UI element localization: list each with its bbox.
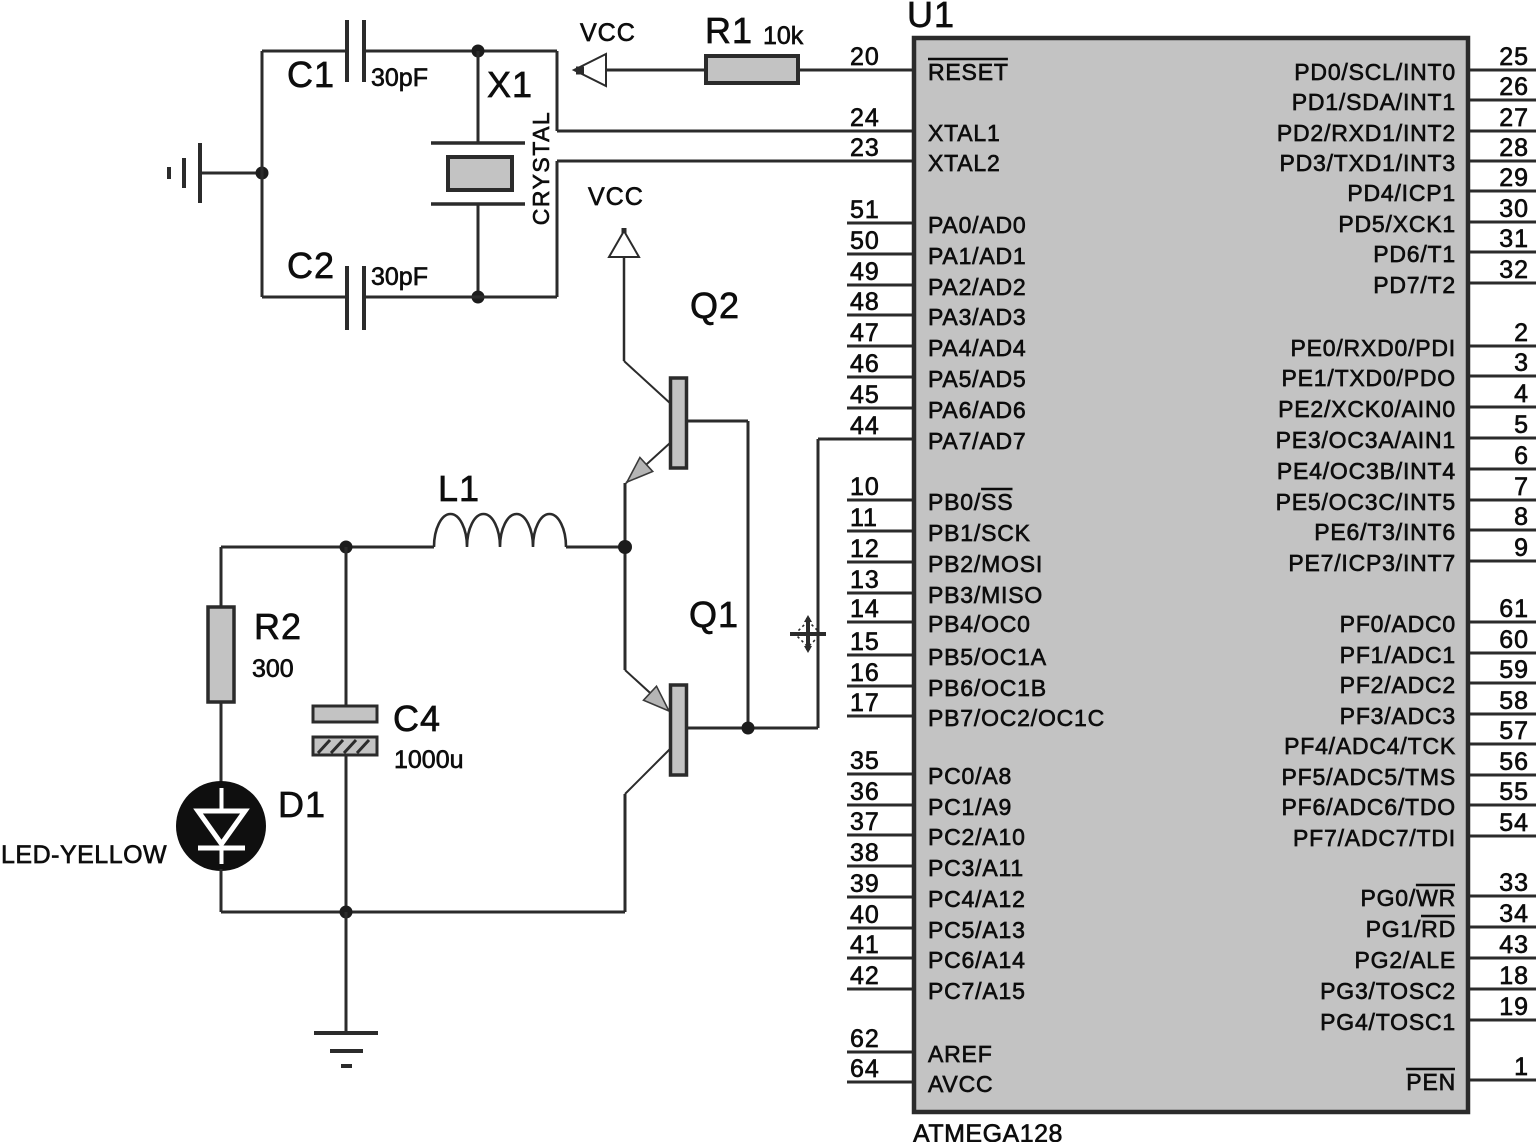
svg-text:D1: D1: [278, 784, 326, 825]
svg-text:Q1: Q1: [689, 594, 739, 635]
svg-text:VCC: VCC: [588, 183, 644, 211]
svg-text:PF1/ADC1: PF1/ADC1: [1340, 642, 1456, 668]
svg-text:42: 42: [850, 962, 880, 990]
transistor Q1: [625, 670, 687, 794]
pin 49 PA2/AD2 (left): [847, 258, 1027, 300]
svg-text:8: 8: [1514, 503, 1529, 531]
svg-text:10k: 10k: [763, 22, 804, 50]
svg-text:29: 29: [1499, 164, 1529, 192]
svg-text:U1: U1: [907, 0, 955, 35]
ground (left, crystal): [169, 143, 200, 203]
svg-text:PB6/OC1B: PB6/OC1B: [928, 675, 1047, 701]
svg-text:55: 55: [1499, 778, 1529, 806]
svg-text:PA1/AD1: PA1/AD1: [928, 243, 1027, 269]
pin 2 PE0/RXD0/PDI (right): [1290, 319, 1536, 361]
svg-text:PC7/A15: PC7/A15: [928, 978, 1026, 1004]
pin 35 PC0/A8 (left): [847, 747, 1012, 789]
svg-text:44: 44: [850, 412, 880, 440]
wire Q2 base down to node: [747, 421, 750, 728]
svg-text:48: 48: [850, 288, 880, 316]
pin 12 PB2/MOSI (left): [847, 535, 1043, 577]
svg-text:23: 23: [850, 134, 880, 162]
svg-text:25: 25: [1499, 43, 1529, 71]
wire VCC to Q2 collector: [623, 257, 626, 361]
svg-text:59: 59: [1499, 656, 1529, 684]
wire ground to node: [200, 172, 262, 175]
pin 29 PD4/ICP1 (right): [1347, 164, 1536, 206]
svg-text:XTAL2: XTAL2: [928, 150, 1001, 176]
pin 14 PB4/OC0 (left): [847, 595, 1031, 637]
ground (bottom): [314, 1033, 378, 1066]
pin 3 PE1/TXD0/PDO (right): [1282, 349, 1536, 391]
svg-text:PA0/AD0: PA0/AD0: [928, 212, 1027, 238]
wire Q1 base to PA7 net: [687, 727, 818, 730]
pin 20 RESET (left): [850, 43, 1009, 85]
svg-text:C2: C2: [287, 245, 335, 286]
svg-text:47: 47: [850, 319, 880, 347]
resistor R2: [208, 607, 234, 702]
wire to ground: [345, 912, 348, 1033]
svg-text:AVCC: AVCC: [928, 1071, 993, 1097]
capacitor C2: [347, 266, 364, 330]
pin 23 XTAL2 (left): [850, 134, 1001, 176]
wire top to C1: [262, 50, 347, 53]
wire bottom rail: [221, 911, 625, 914]
junction dot L1/C4: [340, 541, 353, 554]
svg-text:PE6/T3/INT6: PE6/T3/INT6: [1314, 519, 1456, 545]
pin 13 PB3/MISO (left): [847, 566, 1043, 608]
svg-text:R1: R1: [705, 10, 753, 51]
svg-text:PC0/A8: PC0/A8: [928, 763, 1012, 789]
svg-text:PB0/SS: PB0/SS: [928, 489, 1013, 515]
svg-text:30pF: 30pF: [371, 64, 428, 92]
pin 16 PB6/OC1B (left): [847, 659, 1047, 701]
svg-text:PB7/OC2/OC1C: PB7/OC2/OC1C: [928, 705, 1105, 731]
pin 25 PD0/SCL/INT0 (right): [1294, 43, 1536, 85]
svg-text:PD6/T1: PD6/T1: [1373, 241, 1456, 267]
pin 62 AREF (left): [847, 1025, 993, 1067]
svg-text:50: 50: [850, 227, 880, 255]
junction dot bottom rail/C4: [340, 906, 353, 919]
svg-text:36: 36: [850, 778, 880, 806]
svg-text:33: 33: [1499, 869, 1529, 897]
pin 4 PE2/XCK0/AIN0 (right): [1278, 380, 1536, 422]
pin 32 PD7/T2 (right): [1373, 256, 1536, 298]
wire to C4 top: [345, 547, 348, 706]
pin 41 PC6/A14 (left): [847, 931, 1026, 973]
svg-text:60: 60: [1499, 626, 1529, 654]
pin 45 PA6/AD6 (left): [847, 381, 1027, 423]
pin 24 XTAL1 (left): [850, 104, 1001, 146]
wire left vertical (C1/C2 common): [261, 51, 264, 297]
svg-text:64: 64: [850, 1055, 880, 1083]
svg-text:16: 16: [850, 659, 880, 687]
svg-text:CRYSTAL: CRYSTAL: [528, 111, 554, 225]
pin 11 PB1/SCK (left): [847, 504, 1031, 546]
pin 44 PA7/AD7 (left): [850, 412, 1027, 454]
svg-text:PC1/A9: PC1/A9: [928, 794, 1012, 820]
svg-text:C4: C4: [393, 698, 441, 739]
svg-text:26: 26: [1499, 73, 1529, 101]
svg-text:37: 37: [850, 808, 880, 836]
svg-text:31: 31: [1499, 225, 1529, 253]
pin 19 PG4/TOSC1 (right): [1320, 993, 1536, 1035]
pin 34 PG1/RD (right): [1366, 900, 1536, 942]
svg-text:3: 3: [1514, 349, 1529, 377]
svg-text:AREF: AREF: [928, 1041, 993, 1067]
svg-text:300: 300: [252, 655, 294, 683]
wire C4 bottom: [345, 755, 348, 912]
pin 38 PC3/A11 (left): [847, 839, 1024, 881]
svg-text:PE5/OC3C/INT5: PE5/OC3C/INT5: [1276, 489, 1456, 515]
svg-text:30: 30: [1499, 195, 1529, 223]
svg-text:PG4/TOSC1: PG4/TOSC1: [1320, 1009, 1456, 1035]
pin 40 PC5/A13 (left): [847, 901, 1026, 943]
svg-text:PD5/XCK1: PD5/XCK1: [1338, 211, 1456, 237]
svg-text:PB2/MOSI: PB2/MOSI: [928, 551, 1043, 577]
svg-text:57: 57: [1499, 717, 1529, 745]
pin 54 PF7/ADC7/TDI (right): [1293, 809, 1536, 851]
svg-text:PE7/ICP3/INT7: PE7/ICP3/INT7: [1288, 550, 1456, 576]
svg-text:XTAL1: XTAL1: [928, 120, 1001, 146]
svg-text:49: 49: [850, 258, 880, 286]
pin 42 PC7/A15 (left): [847, 962, 1026, 1004]
svg-text:PA6/AD6: PA6/AD6: [928, 397, 1027, 423]
svg-text:PF0/ADC0: PF0/ADC0: [1340, 611, 1456, 637]
pin 33 PG0/WR (right): [1360, 869, 1536, 911]
svg-text:38: 38: [850, 839, 880, 867]
svg-text:PA2/AD2: PA2/AD2: [928, 274, 1027, 300]
op IC U1 body: [914, 38, 1468, 1112]
junction dot Q1/Q2 base: [742, 722, 755, 735]
svg-text:ATMEGA128: ATMEGA128: [913, 1120, 1063, 1142]
svg-text:56: 56: [1499, 748, 1529, 776]
pin 36 PC1/A9 (left): [847, 778, 1012, 820]
svg-text:58: 58: [1499, 687, 1529, 715]
svg-text:5: 5: [1514, 411, 1529, 439]
resistor R1: [706, 56, 798, 83]
svg-text:PF7/ADC7/TDI: PF7/ADC7/TDI: [1293, 825, 1456, 851]
pin 6 PE4/OC3B/INT4 (right): [1277, 442, 1536, 484]
pin 8 PE6/T3/INT6 (right): [1314, 503, 1536, 545]
wire Q2 emitter / Q1 collector vertical: [624, 483, 627, 670]
svg-text:X1: X1: [487, 64, 533, 105]
svg-text:PG2/ALE: PG2/ALE: [1355, 947, 1457, 973]
svg-text:PF2/ADC2: PF2/ADC2: [1340, 672, 1456, 698]
pin 31 PD6/T1 (right): [1373, 225, 1536, 267]
wire right vertical upper (to XTAL1): [556, 51, 559, 131]
pin 27 PD2/RXD1/INT2 (right): [1277, 104, 1536, 146]
svg-text:PF4/ADC4/TCK: PF4/ADC4/TCK: [1284, 733, 1456, 759]
svg-text:30pF: 30pF: [371, 263, 428, 291]
svg-text:PA5/AD5: PA5/AD5: [928, 366, 1027, 392]
pin 15 PB5/OC1A (left): [847, 628, 1047, 670]
pin 60 PF1/ADC1 (right): [1340, 626, 1536, 668]
svg-text:35: 35: [850, 747, 880, 775]
wire PA7 net vertical: [817, 439, 820, 728]
svg-text:Q2: Q2: [690, 285, 740, 326]
svg-text:54: 54: [1499, 809, 1529, 837]
svg-text:PG1/RD: PG1/RD: [1366, 916, 1456, 942]
pin 5 PE3/OC3A/AIN1 (right): [1276, 411, 1536, 453]
svg-text:C1: C1: [287, 54, 335, 95]
wire R2 to D1: [220, 702, 223, 782]
svg-text:PC3/A11: PC3/A11: [928, 855, 1024, 881]
LED D1 (yellow): [176, 781, 266, 871]
inductor L1: [434, 514, 566, 547]
crystal X1: [431, 143, 525, 204]
svg-text:19: 19: [1499, 993, 1529, 1021]
svg-text:61: 61: [1499, 595, 1529, 623]
svg-text:PD7/T2: PD7/T2: [1373, 272, 1456, 298]
pin 58 PF3/ADC3 (right): [1340, 687, 1536, 729]
svg-text:15: 15: [850, 628, 880, 656]
svg-text:40: 40: [850, 901, 880, 929]
svg-text:PF3/ADC3: PF3/ADC3: [1340, 703, 1456, 729]
svg-text:43: 43: [1499, 931, 1529, 959]
svg-text:LED-YELLOW: LED-YELLOW: [1, 841, 167, 869]
pin 61 PF0/ADC0 (right): [1340, 595, 1536, 637]
power arrow VCC (points left): [574, 54, 606, 86]
pin 57 PF4/ADC4/TCK (right): [1284, 717, 1536, 759]
svg-text:PB1/SCK: PB1/SCK: [928, 520, 1031, 546]
node marker (crosshair): [790, 615, 826, 653]
svg-text:PD1/SDA/INT1: PD1/SDA/INT1: [1292, 89, 1456, 115]
pin 51 PA0/AD0 (left): [847, 196, 1027, 238]
pin 10 PB0/SS (left): [847, 473, 1013, 515]
wire XTAL2 net to pin 23: [557, 160, 914, 163]
svg-text:24: 24: [850, 104, 880, 132]
pin 30 PD5/XCK1 (right): [1338, 195, 1536, 237]
wire L1 right: [566, 546, 625, 549]
junction dot L1/Q1/Q2: [618, 540, 632, 554]
wire L1 left: [221, 546, 434, 549]
svg-text:12: 12: [850, 535, 880, 563]
pin 37 PC2/A10 (left): [847, 808, 1026, 850]
wire C2 to corner: [364, 296, 557, 299]
svg-text:27: 27: [1499, 104, 1529, 132]
wire C1 to corner: [364, 50, 557, 53]
capacitor C1: [347, 20, 364, 82]
wire Q1 collector down: [624, 794, 627, 912]
svg-text:PC2/A10: PC2/A10: [928, 824, 1026, 850]
svg-text:PE2/XCK0/AIN0: PE2/XCK0/AIN0: [1278, 396, 1456, 422]
svg-text:PF5/ADC5/TMS: PF5/ADC5/TMS: [1282, 764, 1456, 790]
svg-text:PD3/TXD1/INT3: PD3/TXD1/INT3: [1279, 150, 1456, 176]
svg-text:4: 4: [1514, 380, 1529, 408]
svg-text:39: 39: [850, 870, 880, 898]
svg-text:PEN: PEN: [1406, 1069, 1456, 1095]
power arrow VCC (points up): [609, 228, 639, 257]
pin 7 PE5/OC3C/INT5 (right): [1276, 473, 1536, 515]
svg-text:PA7/AD7: PA7/AD7: [928, 428, 1027, 454]
svg-text:PE4/OC3B/INT4: PE4/OC3B/INT4: [1277, 458, 1456, 484]
svg-text:PG3/TOSC2: PG3/TOSC2: [1320, 978, 1456, 1004]
svg-text:7: 7: [1514, 473, 1529, 501]
pin 48 PA3/AD3 (left): [847, 288, 1027, 330]
pin 43 PG2/ALE (right): [1355, 931, 1536, 973]
junction dot crystal bottom: [472, 291, 485, 304]
pin 47 PA4/AD4 (left): [847, 319, 1027, 361]
pin 28 PD3/TXD1/INT3 (right): [1279, 134, 1536, 176]
svg-text:PG0/WR: PG0/WR: [1360, 885, 1456, 911]
svg-text:51: 51: [850, 196, 880, 224]
pin 50 PA1/AD1 (left): [847, 227, 1027, 269]
pin 46 PA5/AD5 (left): [847, 350, 1027, 392]
pin 26 PD1/SDA/INT1 (right): [1292, 73, 1536, 115]
svg-text:1000u: 1000u: [394, 746, 464, 774]
svg-text:PD2/RXD1/INT2: PD2/RXD1/INT2: [1277, 120, 1456, 146]
svg-text:41: 41: [850, 931, 880, 959]
svg-text:11: 11: [850, 504, 878, 532]
svg-text:L1: L1: [438, 468, 480, 509]
svg-text:17: 17: [850, 689, 880, 717]
wire D1 to bottom rail: [220, 869, 223, 912]
wire VCC arrow to R1: [606, 69, 706, 72]
transistor Q2: [624, 361, 687, 483]
capacitor C4 (electrolytic): [313, 706, 377, 755]
svg-text:62: 62: [850, 1025, 880, 1053]
svg-text:PB4/OC0: PB4/OC0: [928, 611, 1031, 637]
junction dot crystal left: [256, 167, 269, 180]
svg-text:6: 6: [1514, 442, 1529, 470]
svg-text:32: 32: [1499, 256, 1529, 284]
svg-text:PB3/MISO: PB3/MISO: [928, 582, 1043, 608]
svg-text:9: 9: [1514, 534, 1529, 562]
pin 56 PF5/ADC5/TMS (right): [1282, 748, 1536, 790]
svg-text:34: 34: [1499, 900, 1529, 928]
wire Q2 base right: [687, 420, 748, 423]
svg-text:PE1/TXD0/PDO: PE1/TXD0/PDO: [1282, 365, 1457, 391]
svg-text:PE3/OC3A/AIN1: PE3/OC3A/AIN1: [1276, 427, 1456, 453]
wire to R2 top: [220, 547, 223, 607]
svg-text:R2: R2: [254, 606, 302, 647]
pin 18 PG3/TOSC2 (right): [1320, 962, 1536, 1004]
svg-text:PD0/SCL/INT0: PD0/SCL/INT0: [1294, 59, 1456, 85]
wire XTAL1 net to pin 24: [557, 130, 914, 133]
svg-text:RESET: RESET: [928, 59, 1009, 85]
pin 55 PF6/ADC6/TDO (right): [1282, 778, 1536, 820]
pin 39 PC4/A12 (left): [847, 870, 1026, 912]
svg-text:1: 1: [1514, 1053, 1529, 1081]
svg-text:20: 20: [850, 43, 880, 71]
svg-text:PD4/ICP1: PD4/ICP1: [1347, 180, 1456, 206]
svg-text:PA3/AD3: PA3/AD3: [928, 304, 1027, 330]
wire bottom to C2: [262, 296, 347, 299]
svg-text:PB5/OC1A: PB5/OC1A: [928, 644, 1047, 670]
svg-text:10: 10: [850, 473, 880, 501]
wire crystal bottom plate down: [477, 204, 480, 297]
svg-text:VCC: VCC: [580, 19, 636, 47]
svg-text:2: 2: [1514, 319, 1529, 347]
pin 64 AVCC (left): [847, 1055, 993, 1097]
svg-text:PE0/RXD0/PDI: PE0/RXD0/PDI: [1290, 335, 1456, 361]
pin 17 PB7/OC2/OC1C (left): [847, 689, 1105, 731]
svg-text:46: 46: [850, 350, 880, 378]
junction dot crystal top: [472, 45, 485, 58]
svg-text:PC4/A12: PC4/A12: [928, 886, 1026, 912]
svg-text:14: 14: [850, 595, 880, 623]
svg-text:PC6/A14: PC6/A14: [928, 947, 1026, 973]
pin 59 PF2/ADC2 (right): [1340, 656, 1536, 698]
svg-text:18: 18: [1499, 962, 1529, 990]
svg-text:28: 28: [1499, 134, 1529, 162]
wire right vertical lower (to XTAL2): [556, 161, 559, 297]
svg-text:PF6/ADC6/TDO: PF6/ADC6/TDO: [1282, 794, 1456, 820]
pin 9 PE7/ICP3/INT7 (right): [1288, 534, 1536, 576]
wire PA7 net to pin 44: [818, 438, 914, 441]
wire to crystal top plate: [477, 51, 480, 143]
svg-text:13: 13: [850, 566, 880, 594]
pin 1 PEN (right): [1406, 1053, 1536, 1095]
svg-text:PC5/A13: PC5/A13: [928, 917, 1026, 943]
wire R1 to RESET pin 20: [798, 69, 914, 72]
svg-text:45: 45: [850, 381, 880, 409]
svg-text:PA4/AD4: PA4/AD4: [928, 335, 1027, 361]
